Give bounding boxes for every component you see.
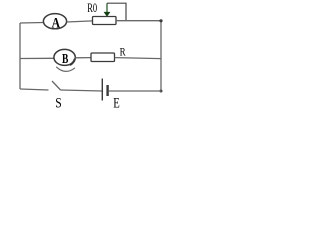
wire left rail <box>19 23 21 89</box>
wire B to R <box>75 57 91 59</box>
battery E long plate <box>101 79 103 101</box>
rheostat R0 body <box>93 17 117 25</box>
junction dot top right <box>159 19 162 22</box>
battery E short plate <box>106 85 108 96</box>
wire middle left segment <box>20 57 54 59</box>
wire R to right rail <box>115 58 162 59</box>
wire battery to right rail <box>109 90 161 92</box>
svg-text:S: S <box>55 94 61 110</box>
svg-text:E: E <box>113 95 120 111</box>
scan blob on meter B lower-right rim <box>71 60 75 65</box>
svg-text:R: R <box>120 47 126 59</box>
arc artifact below meter B <box>56 67 75 72</box>
wire switch to battery <box>61 90 103 91</box>
junction dot bottom right <box>160 90 163 93</box>
svg-text:R0: R0 <box>87 1 97 15</box>
ammeter A <box>43 14 66 31</box>
switch S blade <box>52 81 61 90</box>
svg-text:B: B <box>62 50 68 66</box>
wiper arrow (green) <box>104 3 111 17</box>
wire right rail <box>160 21 162 93</box>
resistor R body <box>91 53 115 62</box>
wire top left segment <box>20 22 44 25</box>
wire bottom left segment <box>20 89 49 90</box>
wire wiper loop <box>107 3 126 21</box>
meter B <box>54 49 75 66</box>
svg-text:A: A <box>52 14 61 31</box>
wire A to R0 <box>67 21 93 22</box>
wire R0 to right rail <box>116 20 161 22</box>
